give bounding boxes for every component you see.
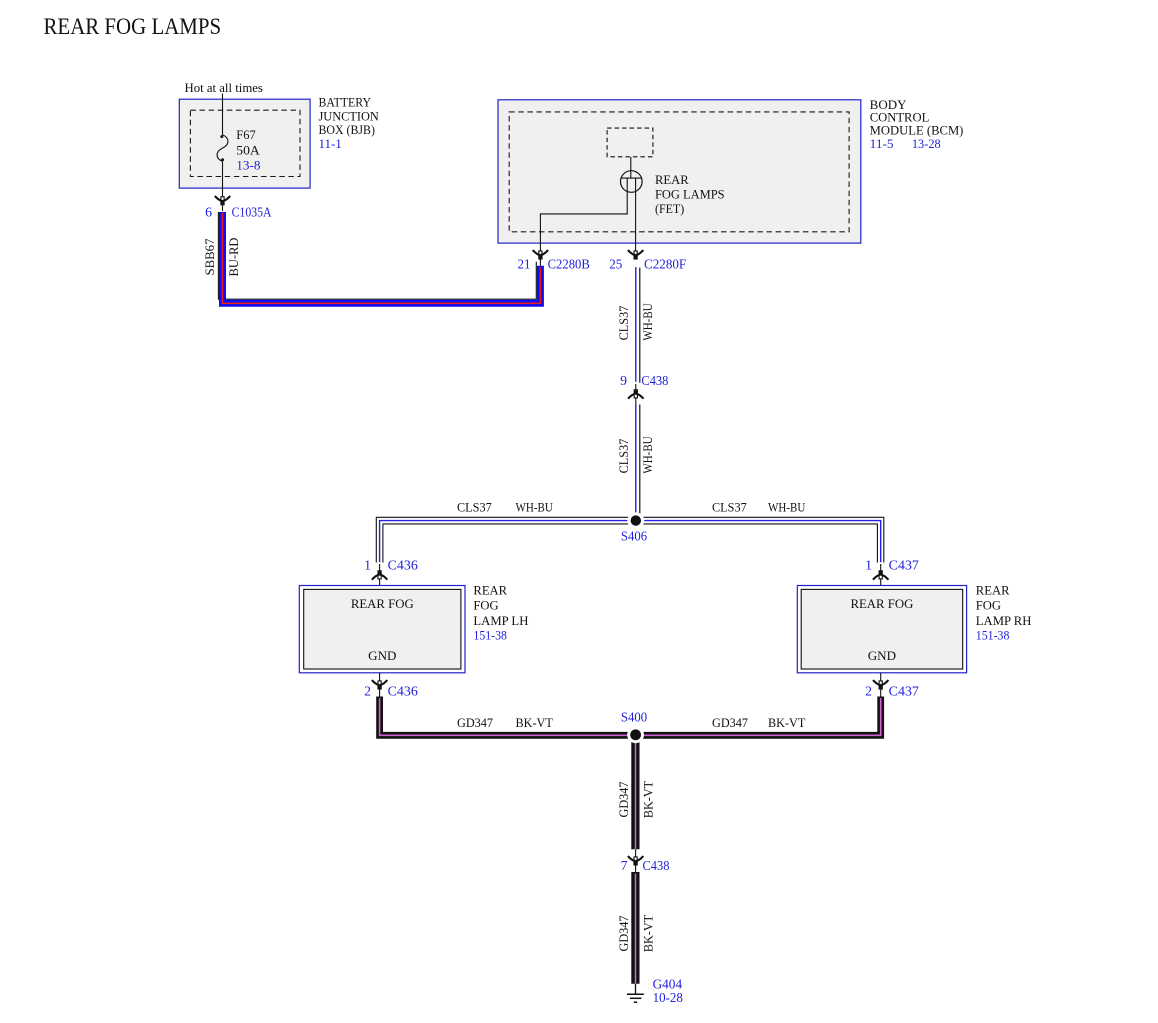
svg-text:REAR: REAR <box>976 584 1010 598</box>
svg-text:Hot at all times: Hot at all times <box>185 81 264 95</box>
svg-text:2: 2 <box>865 684 872 699</box>
svg-text:11-5: 11-5 <box>870 137 894 151</box>
svg-text:BOX (BJB): BOX (BJB) <box>319 123 375 137</box>
svg-text:C1035A: C1035A <box>232 205 272 220</box>
svg-text:151-38: 151-38 <box>976 628 1010 642</box>
svg-text:50A: 50A <box>236 143 259 157</box>
wire through C438 <box>635 384 637 405</box>
connector C2280B pin 21 arrow <box>533 250 548 259</box>
connector C1035A pin 6 arrow <box>215 196 230 205</box>
svg-text:WH-BU: WH-BU <box>768 501 805 515</box>
svg-text:WH-BU: WH-BU <box>641 303 655 340</box>
svg-text:WH-BU: WH-BU <box>516 501 553 515</box>
splice S400 <box>630 729 641 740</box>
svg-text:13-28: 13-28 <box>912 137 941 151</box>
svg-text:CLS37: CLS37 <box>617 306 631 341</box>
connector C438 pin 7 arrow <box>628 856 643 865</box>
svg-text:1: 1 <box>364 557 371 572</box>
wire GD347 BK-VT violet stripe <box>380 698 881 735</box>
svg-text:C436: C436 <box>388 557 418 572</box>
wire S400 to C438 black body <box>631 735 639 849</box>
svg-text:WH-BU: WH-BU <box>641 436 655 473</box>
svg-text:BK-VT: BK-VT <box>516 716 554 730</box>
svg-text:C438: C438 <box>641 373 668 388</box>
svg-text:GND: GND <box>368 649 396 663</box>
connector C436 pin 2 arrow <box>372 680 387 689</box>
svg-text:JUNCTION: JUNCTION <box>319 109 379 123</box>
svg-text:GND: GND <box>868 649 896 663</box>
svg-text:BK-VT: BK-VT <box>642 781 656 819</box>
splice S406 <box>631 515 641 525</box>
rear fog lamp LH box <box>299 586 465 673</box>
svg-text:CLS37: CLS37 <box>457 501 492 515</box>
svg-text:BK-VT: BK-VT <box>642 915 656 953</box>
svg-text:BU-RD: BU-RD <box>227 238 241 277</box>
svg-text:MODULE (BCM): MODULE (BCM) <box>870 124 964 138</box>
svg-text:7: 7 <box>621 858 628 873</box>
wire through C438 pin 7 <box>635 849 637 873</box>
svg-text:GD347: GD347 <box>457 716 493 730</box>
wire SBB67 BU-RD red stripe <box>223 213 541 303</box>
svg-text:13-8: 13-8 <box>236 159 260 173</box>
FET left leg to pin 21 <box>540 178 627 243</box>
svg-text:FOG LAMPS: FOG LAMPS <box>655 188 725 202</box>
BJB inner dashed box <box>190 110 300 176</box>
svg-text:CLS37: CLS37 <box>617 439 631 474</box>
svg-text:C2280F: C2280F <box>644 257 686 272</box>
FET right leg to pin 25 <box>635 178 637 243</box>
svg-text:FOG: FOG <box>976 599 1001 613</box>
svg-text:25: 25 <box>609 257 622 272</box>
wire CLS37 WH-BU from C2280F to C438: blue line <box>635 267 637 382</box>
wire CLS37 WH-BU black line <box>639 268 641 383</box>
svg-text:REAR FOG: REAR FOG <box>850 597 913 611</box>
svg-text:F67: F67 <box>236 128 255 142</box>
wire SBB67 BU-RD black edge <box>218 212 536 299</box>
svg-text:C437: C437 <box>889 684 919 699</box>
svg-text:LAMP RH: LAMP RH <box>976 614 1032 628</box>
wire GD347 BK-VT black body <box>380 697 881 736</box>
ground G404 symbol <box>627 993 644 995</box>
wire into left lamp <box>379 564 381 586</box>
svg-text:21: 21 <box>518 257 531 272</box>
svg-text:C438: C438 <box>643 858 670 873</box>
connector C437 pin 2 arrow <box>873 680 888 689</box>
svg-text:1: 1 <box>865 557 872 572</box>
svg-text:S406: S406 <box>621 529 647 544</box>
wire WH-BU horizontal inner black line <box>383 524 878 563</box>
FET symbol circle <box>621 171 643 193</box>
FET chord line <box>621 177 643 179</box>
svg-text:GD347: GD347 <box>617 916 631 952</box>
svg-text:10-28: 10-28 <box>653 990 683 1005</box>
battery junction box (BJB) <box>179 99 310 188</box>
connector C2280F pin 25 arrow <box>628 250 643 259</box>
wire CLS37 WH-BU from C438 to S406: blue line <box>635 405 637 515</box>
svg-text:CLS37: CLS37 <box>712 501 747 515</box>
svg-text:REAR: REAR <box>473 584 507 598</box>
wire WH-BU horizontal blue line <box>380 521 881 563</box>
rear fog lamp RH box <box>797 586 966 673</box>
svg-text:6: 6 <box>205 205 212 220</box>
wire below lamp RH <box>880 673 882 698</box>
svg-text:G404: G404 <box>653 976 683 991</box>
svg-text:GD347: GD347 <box>712 716 748 730</box>
svg-text:SBB67: SBB67 <box>203 239 217 276</box>
connector C438 pin 9 arrow <box>628 390 643 399</box>
wire from Hot at all times to fuse <box>222 94 224 135</box>
svg-text:REAR FOG LAMPS: REAR FOG LAMPS <box>44 14 222 39</box>
svg-text:BK-VT: BK-VT <box>768 716 806 730</box>
wire small box to FET <box>630 157 632 178</box>
wire pin 21 below BCM <box>539 243 541 266</box>
svg-text:S400: S400 <box>621 710 647 725</box>
svg-text:REAR: REAR <box>655 173 689 187</box>
wire fuse to connector C1035A <box>222 161 224 211</box>
svg-text:9: 9 <box>620 373 627 388</box>
svg-text:C436: C436 <box>388 684 418 699</box>
wire pin 25 below BCM <box>635 243 637 253</box>
svg-text:2: 2 <box>364 684 371 699</box>
wire C438 to G404 black body <box>631 872 639 984</box>
svg-text:151-38: 151-38 <box>473 628 507 642</box>
fuse F67 50A <box>217 135 228 161</box>
wire SBB67 BU-RD blue body <box>223 212 541 303</box>
splice S406 white ring <box>627 512 644 529</box>
BCM inner dashed box <box>509 112 849 232</box>
wire WH-BU horizontal outer black line <box>376 517 884 562</box>
svg-text:BATTERY: BATTERY <box>319 96 372 110</box>
body control module (BCM) <box>498 100 861 243</box>
splice S400 white ring <box>627 726 644 743</box>
wire CLS37 WH-BU black line <box>639 405 641 515</box>
svg-text:CONTROL: CONTROL <box>870 111 930 125</box>
BCM small dashed box <box>607 128 653 157</box>
svg-text:C437: C437 <box>889 557 919 572</box>
wire into right lamp <box>880 564 882 586</box>
svg-text:REAR FOG: REAR FOG <box>351 597 414 611</box>
connector C437 pin 1 arrow <box>873 571 888 580</box>
svg-text:C2280B: C2280B <box>548 257 590 272</box>
svg-text:(FET): (FET) <box>655 202 684 216</box>
svg-text:LAMP LH: LAMP LH <box>473 614 528 628</box>
wire to ground <box>635 984 637 994</box>
wire below lamp LH <box>379 673 381 698</box>
connector C436 pin 1 arrow <box>372 571 387 580</box>
svg-text:11-1: 11-1 <box>319 137 342 151</box>
svg-text:GD347: GD347 <box>617 782 631 818</box>
svg-text:FOG: FOG <box>473 599 498 613</box>
